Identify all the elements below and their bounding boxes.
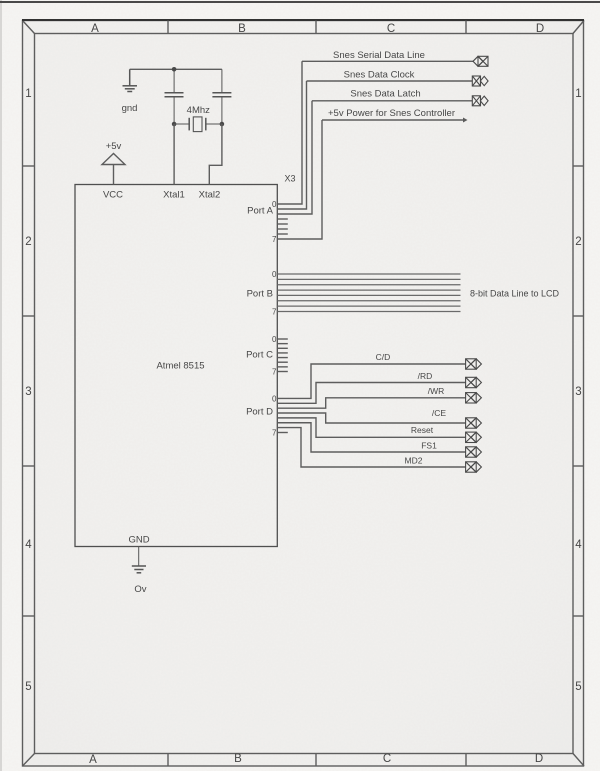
connector FS1 <box>466 447 482 457</box>
net Snes Serial Data Line <box>302 50 473 61</box>
svg-text:4Mhz: 4Mhz <box>187 105 210 116</box>
svg-text:8-bit Data Line to LCD: 8-bit Data Line to LCD <box>470 289 560 299</box>
svg-text:C/D: C/D <box>376 352 391 362</box>
connector Snes Data Clock <box>472 76 488 86</box>
svg-text:/CE: /CE <box>432 408 447 418</box>
svg-text:2: 2 <box>575 236 581 248</box>
wire Xtal1 <box>173 124 175 185</box>
svg-text:7: 7 <box>272 429 277 438</box>
Port A pin 3 stub <box>277 218 288 220</box>
IC U1 Atmel 8515 <box>75 185 277 547</box>
ground (bottom) <box>132 547 146 573</box>
svg-text:Snes Data Clock: Snes Data Clock <box>344 70 415 81</box>
svg-text:VCC: VCC <box>103 190 123 201</box>
svg-text:Snes Data Latch: Snes Data Latch <box>350 89 420 100</box>
svg-text:3: 3 <box>575 386 581 398</box>
svg-text:Atmel 8515: Atmel 8515 <box>156 361 204 372</box>
svg-text:MD2: MD2 <box>405 456 423 466</box>
ground (top) <box>123 69 138 91</box>
connector /CE <box>466 418 482 428</box>
svg-text:A: A <box>89 754 97 766</box>
crystal X1 4Mhz <box>174 117 222 132</box>
svg-text:7: 7 <box>272 235 277 244</box>
svg-text:D: D <box>535 753 543 765</box>
svg-text:4: 4 <box>575 539 582 551</box>
Port A pin 4 stub <box>277 223 288 225</box>
net +5v Power for Snes Controller <box>322 108 468 123</box>
svg-text:B: B <box>238 23 246 35</box>
svg-text:1: 1 <box>575 88 581 100</box>
svg-text:C: C <box>387 23 395 35</box>
svg-text:0: 0 <box>272 270 277 279</box>
Port A pin 6 stub <box>277 233 288 235</box>
wire Xtal2 <box>209 124 222 185</box>
svg-text:0: 0 <box>272 200 277 209</box>
net /RD from PD1 <box>277 371 465 403</box>
power +5v symbol <box>102 154 125 185</box>
Port C stub pins <box>277 339 288 372</box>
Port A pin 7 wire to +5v power line <box>277 120 322 239</box>
svg-text:2: 2 <box>25 236 31 248</box>
svg-text:/WR: /WR <box>428 386 445 396</box>
connector C/D <box>466 359 482 369</box>
svg-text:A: A <box>91 23 99 35</box>
junction node crystal right <box>220 122 225 127</box>
svg-text:7: 7 <box>272 368 277 377</box>
net MD2 from PD6 <box>277 428 465 467</box>
svg-text:Xtal2: Xtal2 <box>199 190 221 201</box>
svg-text:Port A: Port A <box>247 206 274 217</box>
svg-text:Xtal1: Xtal1 <box>163 190 185 201</box>
svg-text:Reset: Reset <box>411 425 434 435</box>
svg-text:5: 5 <box>25 681 31 693</box>
Port A pin 2 wire to Snes latch <box>277 101 312 214</box>
net Snes Data Clock <box>307 70 473 82</box>
connector /RD <box>466 377 482 387</box>
net FS1 from PD5 <box>277 423 465 452</box>
Port A pin 5 stub <box>277 228 288 230</box>
svg-text:Ov: Ov <box>134 584 146 595</box>
svg-text:Port C: Port C <box>246 350 273 361</box>
net /CE from PD3 <box>277 408 465 423</box>
svg-text:Port D: Port D <box>246 407 273 418</box>
svg-text:5: 5 <box>575 681 581 693</box>
svg-text:0: 0 <box>272 335 277 344</box>
net Snes Data Latch <box>312 89 472 101</box>
svg-text:FS1: FS1 <box>421 441 437 451</box>
Port A pin 1 wire to Snes clock <box>277 81 306 209</box>
net C/D from PD0 <box>277 352 465 398</box>
connector Snes Serial Data Line <box>473 56 488 66</box>
wire top node <box>130 68 222 70</box>
Port B bus wires 8-bit <box>277 274 460 312</box>
svg-text:B: B <box>234 753 242 765</box>
svg-text:Port B: Port B <box>247 289 273 300</box>
junction node crystal left <box>172 122 177 127</box>
svg-text:/RD: /RD <box>418 371 433 381</box>
svg-text:0: 0 <box>272 395 277 404</box>
svg-text:X3: X3 <box>284 174 295 184</box>
svg-text:3: 3 <box>25 386 31 398</box>
connector Reset <box>466 432 482 442</box>
net Reset from PD4 <box>277 418 465 437</box>
svg-text:C: C <box>383 753 391 765</box>
svg-text:D: D <box>536 23 544 35</box>
Port D pin 7 stub <box>277 432 288 434</box>
svg-text:1: 1 <box>25 88 31 100</box>
svg-text:Snes Serial Data Line: Snes Serial Data Line <box>333 50 425 61</box>
Port A pin 0 wire to Snes serial <box>277 61 302 204</box>
net /WR from PD2 <box>277 386 465 408</box>
svg-text:4: 4 <box>25 539 32 551</box>
svg-text:7: 7 <box>272 308 277 317</box>
svg-text:gnd: gnd <box>122 103 138 114</box>
svg-text:+5v Power for Snes Controller: +5v Power for Snes Controller <box>328 108 455 119</box>
connector MD2 <box>466 462 482 472</box>
svg-text:GND: GND <box>128 535 149 546</box>
svg-text:+5v: +5v <box>106 141 122 152</box>
connector /WR <box>466 393 482 403</box>
capacitor C2 <box>212 69 231 124</box>
capacitor C1 <box>165 69 184 124</box>
connector Snes Data Latch <box>472 96 488 106</box>
junction node top <box>172 67 177 72</box>
